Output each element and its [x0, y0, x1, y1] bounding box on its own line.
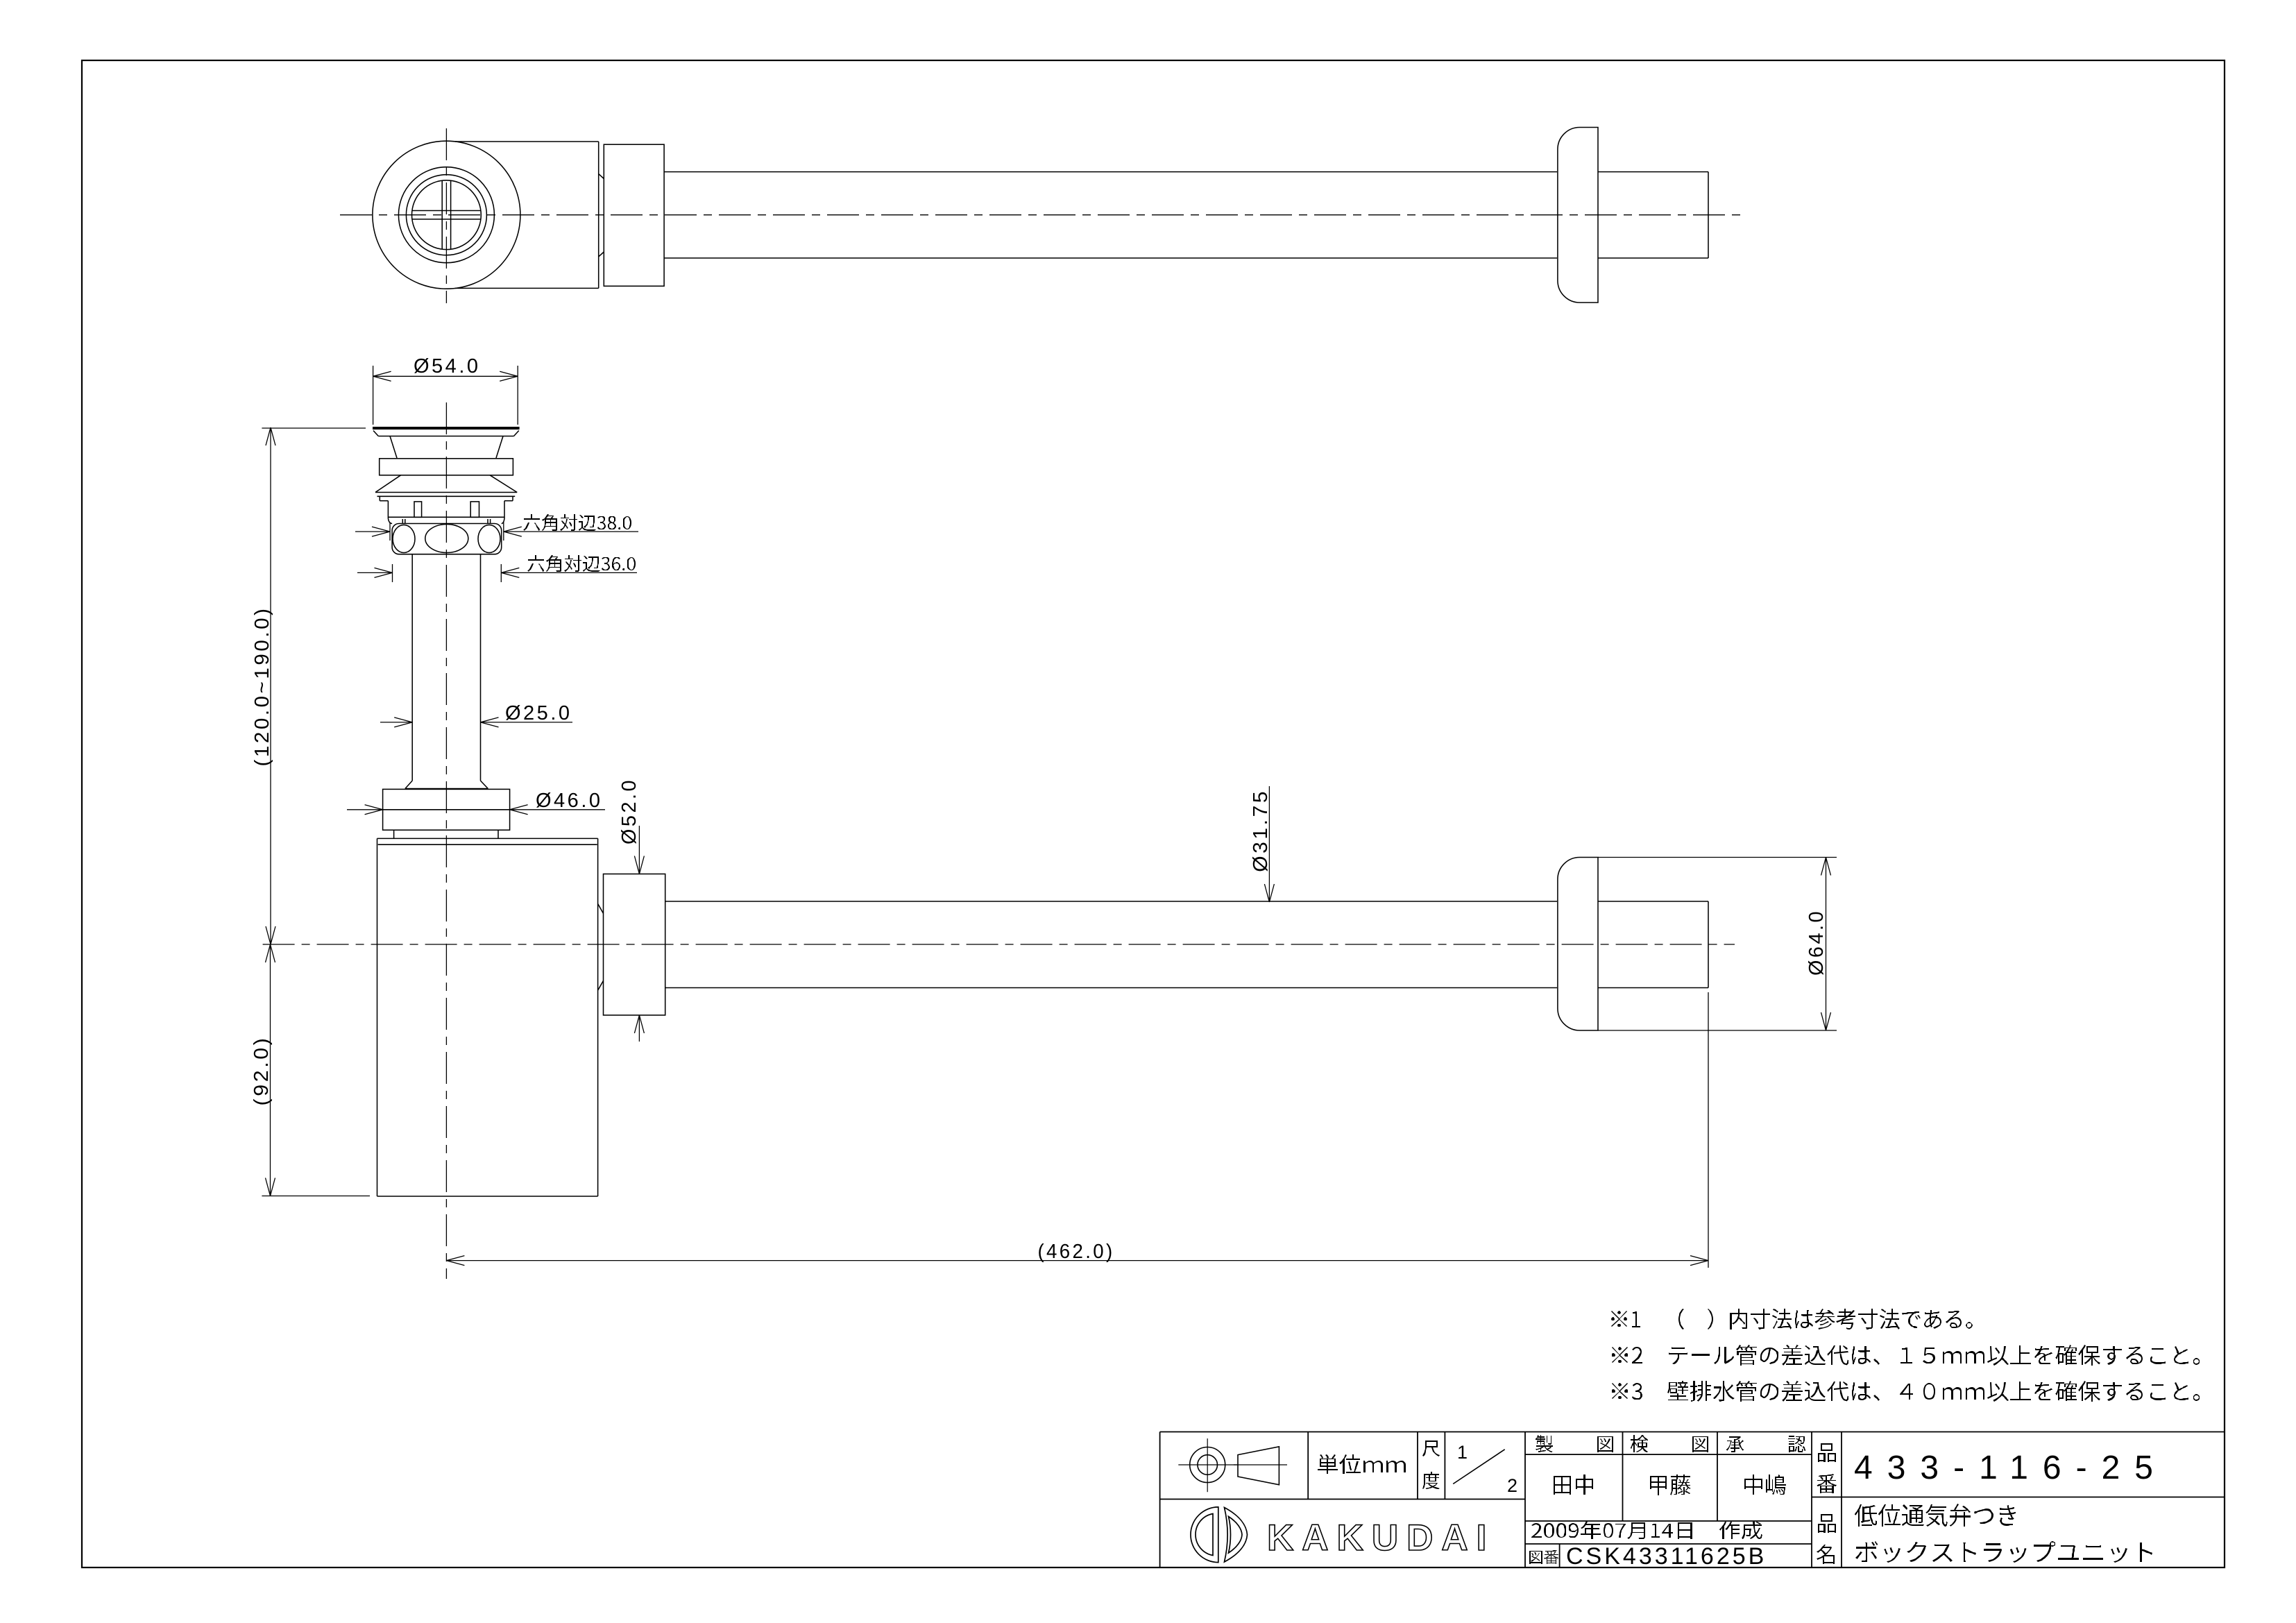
- svg-text:Ø46.0: Ø46.0: [536, 790, 603, 812]
- svg-text:(120.0~190.0): (120.0~190.0): [251, 606, 273, 767]
- svg-text:1: 1: [1457, 1442, 1468, 1463]
- svg-text:(92.0): (92.0): [250, 1036, 273, 1106]
- svg-text:Ø25.0: Ø25.0: [505, 702, 572, 724]
- svg-text:Ø54.0: Ø54.0: [414, 355, 481, 377]
- svg-text:Ø52.0: Ø52.0: [618, 778, 640, 844]
- svg-text:Ø31.75: Ø31.75: [1250, 789, 1272, 872]
- svg-text:(462.0): (462.0): [1038, 1241, 1115, 1263]
- svg-text:2: 2: [1507, 1475, 1517, 1496]
- svg-text:Ø64.0: Ø64.0: [1805, 909, 1828, 976]
- svg-text:CSK43311625B: CSK43311625B: [1566, 1543, 1767, 1570]
- svg-text:433-116-25: 433-116-25: [1854, 1450, 2168, 1486]
- svg-text:KAKUDAI: KAKUDAI: [1267, 1518, 1495, 1558]
